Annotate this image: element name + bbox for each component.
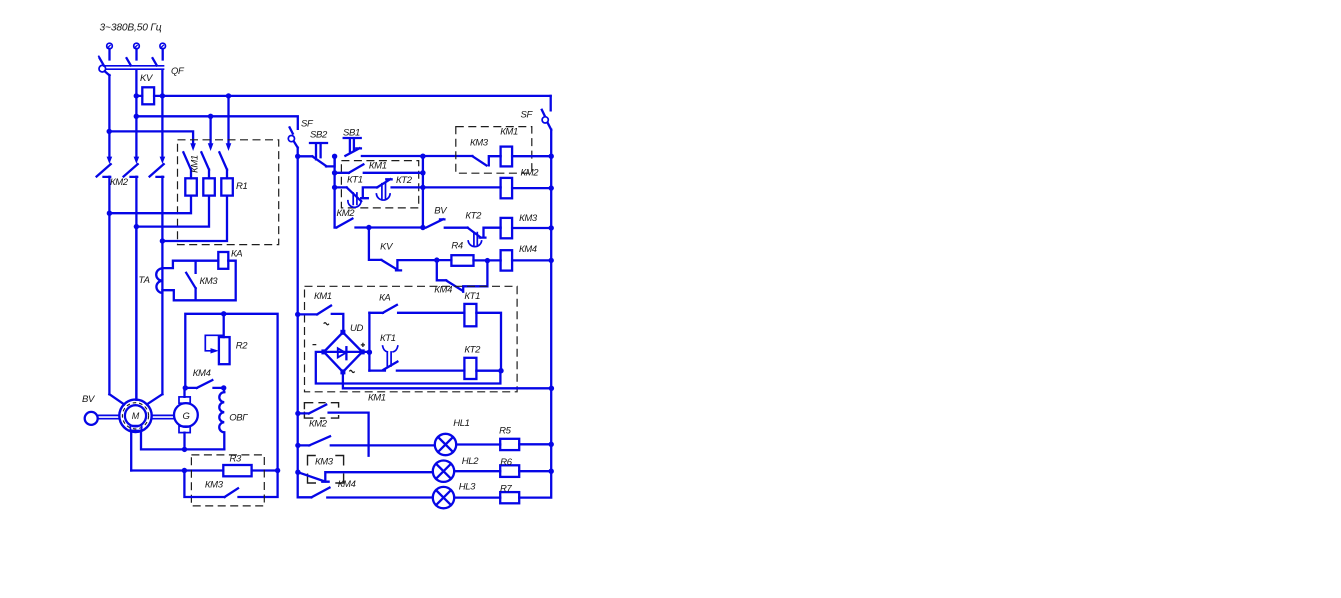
- svg-text:КМ3: КМ3: [519, 213, 538, 224]
- svg-text:КТ2: КТ2: [464, 344, 481, 355]
- svg-text:КМ3: КМ3: [315, 457, 334, 468]
- svg-text:R7: R7: [500, 484, 513, 495]
- svg-text:HL3: HL3: [459, 482, 476, 493]
- svg-text:KV: KV: [140, 73, 154, 84]
- svg-text:R3: R3: [230, 454, 243, 465]
- svg-text:КМ1: КМ1: [500, 127, 518, 138]
- svg-text:3~380В,50 Гц: 3~380В,50 Гц: [100, 23, 162, 34]
- svg-text:R4: R4: [451, 241, 463, 252]
- svg-text:ТА: ТА: [139, 275, 150, 286]
- svg-text:HL1: HL1: [453, 418, 469, 429]
- svg-text:R6: R6: [500, 457, 513, 468]
- svg-text:КМ3: КМ3: [470, 138, 489, 149]
- svg-text:R2: R2: [236, 341, 249, 352]
- svg-text:КА: КА: [231, 249, 242, 260]
- svg-text:КА: КА: [379, 292, 390, 303]
- svg-text:КТ1: КТ1: [347, 175, 363, 186]
- svg-text:КМ2: КМ2: [337, 208, 356, 219]
- svg-text:КМ1: КМ1: [368, 392, 386, 403]
- svg-text:КМ1: КМ1: [314, 291, 332, 302]
- svg-text:KV: KV: [380, 242, 394, 253]
- svg-text:КМ2: КМ2: [309, 419, 328, 430]
- svg-text:М: М: [132, 411, 140, 421]
- svg-text:КТ2: КТ2: [396, 175, 413, 186]
- svg-text:SB2: SB2: [310, 130, 328, 141]
- svg-text:КМ4: КМ4: [193, 368, 211, 379]
- svg-text:G: G: [183, 411, 190, 422]
- svg-text:КМ1: КМ1: [369, 161, 387, 172]
- svg-text:R5: R5: [499, 426, 512, 437]
- svg-text:КМ2: КМ2: [521, 168, 540, 179]
- svg-text:КМ4: КМ4: [519, 244, 537, 255]
- svg-text:HL2: HL2: [462, 456, 479, 467]
- svg-text:КМ3: КМ3: [200, 276, 219, 287]
- svg-text:BV: BV: [82, 394, 96, 405]
- svg-text:КМ1: КМ1: [190, 155, 201, 173]
- svg-text:R1: R1: [236, 181, 248, 192]
- svg-text:КТ1: КТ1: [464, 291, 480, 302]
- svg-text:КТ1: КТ1: [380, 333, 396, 344]
- svg-text:КМ2: КМ2: [110, 177, 129, 188]
- svg-text:BV: BV: [434, 206, 448, 217]
- svg-text:КМ3: КМ3: [205, 480, 224, 491]
- svg-text:SF: SF: [301, 119, 314, 130]
- svg-text:SB1: SB1: [343, 128, 360, 139]
- svg-text:ОВГ: ОВГ: [229, 413, 248, 424]
- svg-text:КМ4: КМ4: [338, 479, 356, 490]
- svg-text:UD: UD: [350, 323, 364, 334]
- svg-text:SF: SF: [521, 110, 534, 121]
- svg-text:КТ2: КТ2: [465, 211, 482, 222]
- svg-text:QF: QF: [171, 66, 185, 77]
